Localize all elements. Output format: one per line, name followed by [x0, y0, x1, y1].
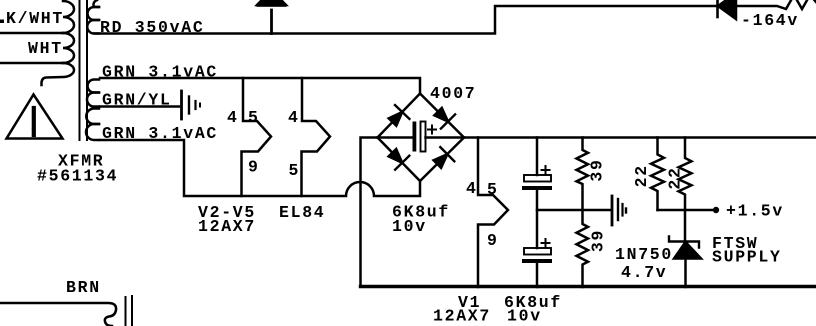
- svg-text:10v: 10v: [507, 307, 542, 326]
- svg-text:10v: 10v: [392, 217, 427, 236]
- svg-text:12AX7: 12AX7: [433, 307, 491, 326]
- svg-text:BRN: BRN: [66, 278, 101, 297]
- svg-text:9: 9: [248, 158, 260, 177]
- svg-text:4.7v: 4.7v: [621, 263, 667, 282]
- svg-text:4: 4: [466, 179, 478, 198]
- svg-text:5: 5: [487, 180, 499, 199]
- svg-text:5: 5: [248, 108, 260, 127]
- svg-text:GRN/YL: GRN/YL: [102, 91, 172, 110]
- svg-text:K/WHT: K/WHT: [6, 9, 64, 28]
- svg-text:-164v: -164v: [741, 11, 799, 30]
- svg-text:WHT: WHT: [28, 39, 63, 58]
- svg-text:RD 350vAC: RD 350vAC: [100, 18, 204, 37]
- svg-text:4: 4: [288, 108, 300, 127]
- svg-text:4: 4: [227, 108, 239, 127]
- svg-text:39: 39: [588, 158, 607, 181]
- svg-text:22: 22: [666, 166, 685, 189]
- svg-text:5: 5: [289, 161, 301, 180]
- svg-text:#561134: #561134: [37, 167, 118, 186]
- svg-text:+1.5v: +1.5v: [726, 202, 784, 221]
- svg-text:9: 9: [487, 231, 499, 250]
- svg-text:12AX7: 12AX7: [198, 217, 256, 236]
- svg-text:1N750: 1N750: [615, 245, 673, 264]
- svg-text:39: 39: [589, 229, 608, 252]
- svg-text:EL84: EL84: [279, 203, 325, 222]
- svg-text:GRN 3.1vAC: GRN 3.1vAC: [102, 124, 218, 143]
- svg-text:GRN 3.1vAC: GRN 3.1vAC: [102, 63, 218, 82]
- svg-text:4007: 4007: [430, 84, 476, 103]
- svg-text:22: 22: [632, 164, 651, 187]
- svg-text:SUPPLY: SUPPLY: [712, 248, 782, 267]
